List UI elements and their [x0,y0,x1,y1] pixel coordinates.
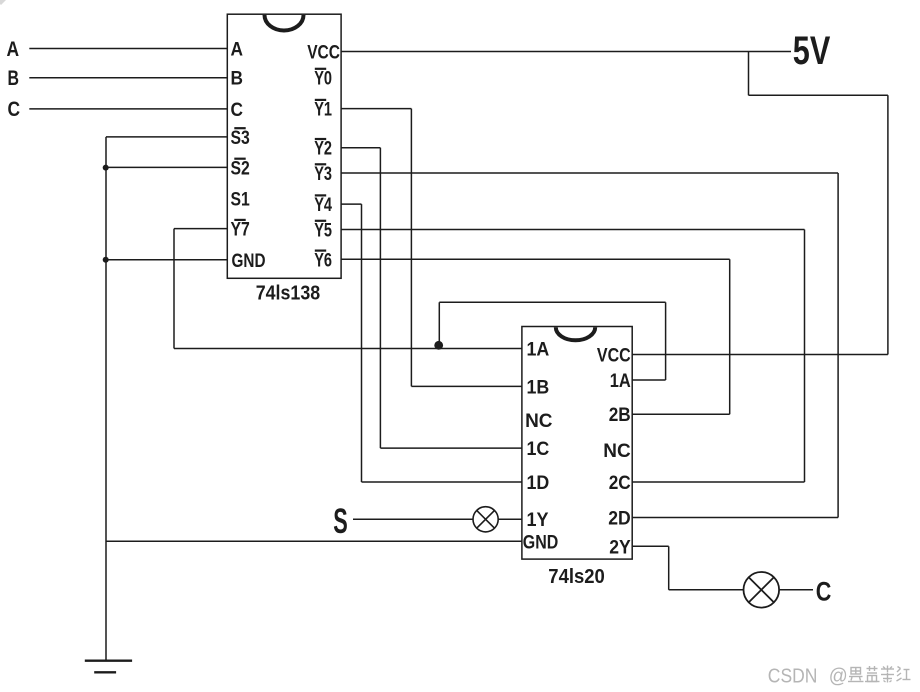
svg-text:A: A [7,38,20,61]
svg-text:VCC: VCC [307,42,340,64]
wire 5V branch vertical [748,52,750,96]
wire Y4 to U2 1D [362,481,522,483]
svg-text:2C: 2C [609,472,631,494]
U1 pin Y5 label with overbar [314,220,332,242]
svg-text:1A: 1A [527,339,550,361]
U1 pin Y0 label with overbar [314,68,332,90]
svg-text:C: C [231,99,244,121]
IC U1 74ls138 body [227,14,341,278]
svg-text:GND: GND [523,531,559,553]
wire to U2 right pin 1A [632,379,665,381]
watermark char hei [848,668,864,682]
wire lamp C to label [779,589,813,591]
wire Y3 to U2 2D [632,517,838,519]
svg-text:1C: 1C [527,438,550,460]
wire to U2 VCC [632,354,888,356]
svg-text:@: @ [829,666,848,688]
wire S3 to left rail [106,136,227,138]
wire Y1 vertical [410,109,412,387]
svg-text:1A: 1A [610,370,631,392]
watermark char hong [897,667,911,682]
svg-text:S3: S3 [231,127,250,149]
svg-text:VCC: VCC [597,345,631,367]
wire 2Y to lamp C [669,589,744,591]
wire Y5 to U2 2C [632,481,804,483]
svg-text:NC: NC [603,440,630,462]
svg-text:2B: 2B [609,404,631,426]
wire 5V branch horizontal [749,94,888,96]
wire Y5 horizontal [341,229,804,231]
wire Y3 horizontal [341,172,838,174]
svg-text:C: C [816,576,832,606]
wire 1A net vertical up [438,302,440,348]
U1 pin Y3 label with overbar [314,163,332,185]
svg-text:1B: 1B [527,376,550,398]
watermark char lan [865,666,880,682]
junction dot GND/rail [103,257,109,263]
svg-text:Y6: Y6 [314,249,332,271]
wire Y7 horizontal [174,228,227,230]
corner artifact [0,0,6,5]
wire S to lamp [353,518,473,520]
U1 pin Y1 label with overbar [314,99,332,121]
svg-text:C: C [8,98,21,121]
svg-text:Y7: Y7 [231,219,250,241]
svg-text:2D: 2D [608,508,631,530]
wire Y6 horizontal [341,258,730,260]
wire Y6 vertical [729,259,731,414]
svg-text:Y1: Y1 [314,99,332,121]
wire input A [29,48,227,50]
wire Y4 horizontal [341,203,361,205]
U1 pin Y7 label with overbar [231,219,250,241]
svg-text:1Y: 1Y [527,509,549,531]
svg-text:NC: NC [525,410,552,432]
svg-text:Y0: Y0 [314,68,332,90]
svg-text:Y4: Y4 [314,194,332,216]
svg-text:1D: 1D [527,472,550,494]
wire Y6 to U2 2B [632,413,730,415]
ground [85,661,132,673]
watermark char zi [881,666,894,683]
wire lamp to U2 1Y [498,518,522,520]
svg-text:A: A [231,39,244,61]
svg-text:Y3: Y3 [314,163,332,185]
wire Y3 vertical [837,173,839,518]
svg-text:GND: GND [232,250,266,272]
svg-text:B: B [231,68,244,90]
watermark CSDN [768,666,848,688]
svg-text:CSDN: CSDN [768,666,818,688]
svg-text:S2: S2 [231,157,250,179]
wire left ground rail vertical [105,137,107,660]
junction dot S2/rail [103,165,109,171]
wire Y7 to U2 1A [174,348,522,350]
U1 pin Y6 label with overbar [314,249,332,271]
U1 pin Y4 label with overbar [314,194,332,216]
wire input C [29,108,227,110]
wire 1A net vertical down [665,302,667,380]
svg-text:B: B [8,67,20,90]
wire input B [29,77,227,79]
wire VCC to 5V [341,51,791,53]
wire 2Y vertical [668,546,670,590]
U1 pin Y2 label with overbar [314,138,332,160]
wire Y4 vertical [361,204,363,482]
svg-text:74ls20: 74ls20 [548,566,605,588]
wire 5V rail down right side [887,95,889,354]
wire 2Y horizontal [632,545,669,547]
wire U1 GND to rail [106,259,227,261]
lamp DS1 at S input [473,507,498,532]
svg-text:S1: S1 [231,189,250,211]
wire Y2 to U2 1C [380,447,522,449]
wire Y1 to U2 1B [411,385,522,387]
svg-text:2Y: 2Y [609,537,631,559]
wire 1A net top horizontal [439,301,665,303]
U1 pin S2 label with overbar [231,157,250,179]
wire U2 GND to left rail [106,540,522,542]
wire Y5 vertical [804,230,806,483]
svg-text:Y2: Y2 [314,138,332,160]
U1 pin S3 label with overbar [231,127,250,149]
wire Y1 horizontal [341,108,411,110]
wire Y2 horizontal [341,147,380,149]
IC U2 74ls20 body [522,327,632,560]
wire S2 to left rail [106,166,227,168]
svg-text:5V: 5V [793,29,831,73]
svg-text:S: S [333,502,348,541]
lamp DS2 at C output [744,572,780,608]
svg-text:Y5: Y5 [314,220,332,242]
wire Y7 vertical [173,229,175,349]
junction dot on 1A net [434,341,443,350]
svg-text:74ls138: 74ls138 [256,283,321,305]
wire Y2 vertical [379,148,381,448]
